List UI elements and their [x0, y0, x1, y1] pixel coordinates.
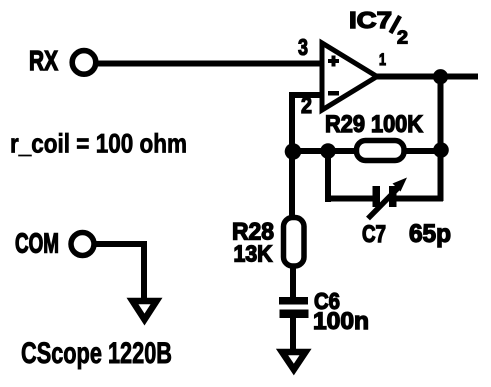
capacitor C7 left plate [373, 186, 381, 207]
pin 2 wire horizontal [289, 92, 322, 98]
ground symbol (bottom) [282, 352, 306, 370]
output wire [375, 74, 478, 80]
feedback wire horizontal [289, 148, 441, 154]
svg-text:2: 2 [397, 28, 408, 48]
wire COM horizontal [96, 241, 147, 247]
op-amp minus sign [328, 91, 339, 96]
op-amp U=IC7/2 triangle [322, 43, 377, 110]
wire right vertical (output to feedback) [438, 76, 444, 201]
output junction node [433, 69, 448, 84]
wire C7 branch bottom horizontal [325, 196, 443, 202]
svg-text:IC7: IC7 [349, 7, 392, 33]
svg-text:100n: 100n [313, 308, 369, 335]
wire RX to pin 3 [98, 61, 322, 67]
resistor R28 body [284, 218, 305, 267]
capacitor C7 gap [380, 193, 390, 204]
svg-text:13K: 13K [234, 241, 273, 267]
svg-text:1: 1 [379, 50, 386, 69]
terminal COM circle [71, 233, 94, 256]
ground symbol (COM) [133, 301, 157, 320]
junction node pin2/feedback [285, 143, 302, 160]
capacitor C7 trimmer arrow [368, 178, 407, 219]
capacitor C6 top plate [279, 297, 308, 305]
terminal RX circle [72, 51, 96, 75]
label IC7/2 [349, 7, 408, 48]
svg-text:COM: COM [15, 227, 59, 258]
wire COM vertical [141, 241, 147, 300]
svg-text:C7: C7 [362, 221, 386, 248]
capacitor C7 right plate [389, 186, 397, 207]
svg-text:65p: 65p [409, 220, 451, 248]
junction node R29 right [433, 142, 449, 158]
wire R28 to C6 [290, 264, 296, 299]
svg-text:3: 3 [298, 34, 308, 60]
svg-text:2: 2 [301, 92, 312, 118]
wire C6 to ground [290, 316, 296, 352]
wire left vertical (pin2 down to R28) [289, 92, 295, 220]
junction node C7 branch [320, 143, 336, 159]
svg-text:r_coil = 100 ohm: r_coil = 100 ohm [10, 129, 187, 159]
resistor R29 body [357, 141, 405, 161]
svg-text:CScope 1220B: CScope 1220B [21, 337, 172, 370]
svg-text:RX: RX [29, 45, 58, 76]
svg-text:R29 100K: R29 100K [325, 111, 424, 138]
wire C7 branch left vertical [325, 151, 331, 202]
op-amp plus sign [328, 56, 339, 67]
capacitor C6 bottom plate [280, 310, 309, 319]
